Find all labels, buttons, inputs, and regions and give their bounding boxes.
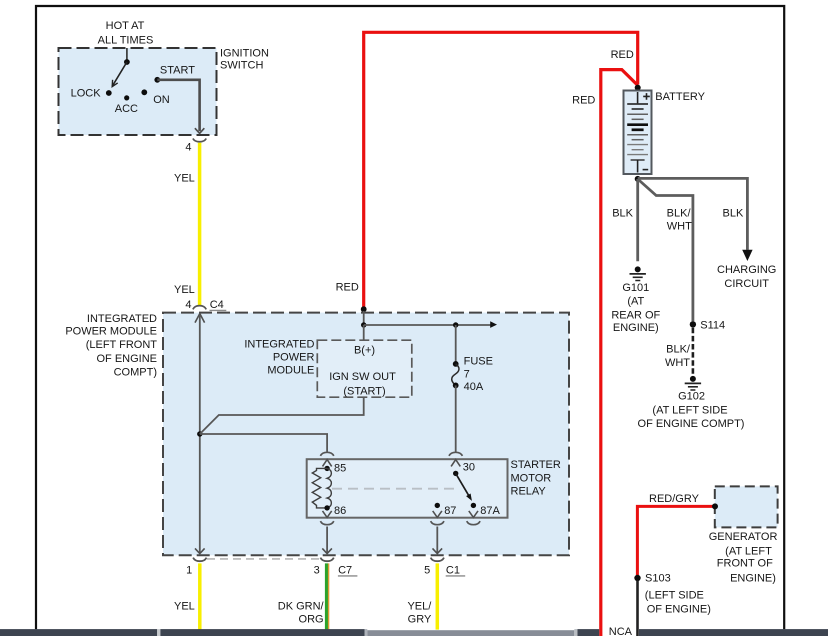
svg-text:7: 7 bbox=[464, 369, 470, 381]
svg-text:4: 4 bbox=[185, 141, 191, 153]
splice S103 bbox=[634, 573, 711, 616]
svg-text:(START): (START) bbox=[343, 386, 385, 398]
svg-text:OF ENGINE): OF ENGINE) bbox=[647, 603, 711, 615]
svg-text:INTEGRATED: INTEGRATED bbox=[87, 313, 157, 325]
wire NCA below S103 bbox=[609, 581, 638, 636]
pin 87A bbox=[467, 503, 501, 525]
label STARTER MOTOR RELAY bbox=[511, 459, 561, 498]
wire IGN SW OUT to junction bbox=[200, 397, 364, 434]
bottom bar bbox=[0, 629, 828, 636]
svg-text:ORG: ORG bbox=[299, 613, 324, 625]
svg-text:INTEGRATED: INTEGRATED bbox=[244, 339, 314, 351]
svg-text:CIRCUIT: CIRCUIT bbox=[724, 278, 769, 290]
svg-text:1: 1 bbox=[186, 565, 192, 577]
junction node fuse branch bbox=[453, 322, 458, 327]
svg-text:RED: RED bbox=[336, 281, 359, 293]
svg-text:(AT: (AT bbox=[627, 295, 644, 307]
svg-text:ALL TIMES: ALL TIMES bbox=[98, 35, 154, 47]
wire YEL/GRY pin 5 bbox=[407, 563, 437, 629]
wire DK GRN/ORG pin 3 bbox=[278, 563, 329, 629]
battery BAT1 bbox=[624, 91, 652, 175]
svg-text:RED: RED bbox=[572, 95, 595, 107]
svg-text:COMPT): COMPT) bbox=[114, 366, 157, 378]
svg-text:S114: S114 bbox=[700, 320, 725, 332]
B(+) IGN SW OUT block bbox=[317, 340, 412, 397]
svg-text:(LEFT FRONT: (LEFT FRONT bbox=[86, 339, 158, 351]
generator box bbox=[715, 486, 778, 527]
svg-text:87A: 87A bbox=[480, 505, 500, 517]
svg-text:NCA: NCA bbox=[609, 626, 633, 636]
svg-text:87: 87 bbox=[444, 505, 456, 517]
svg-text:STARTER: STARTER bbox=[511, 459, 561, 471]
wire BLK/WHT to S114 bbox=[638, 179, 693, 321]
wire feed stub into switch bbox=[126, 48, 128, 62]
label INTEGRATED POWER MODULE (inner) bbox=[244, 339, 314, 377]
fuse F7 40A bbox=[452, 325, 493, 452]
splice S114 bbox=[690, 320, 725, 332]
svg-text:BATTERY: BATTERY bbox=[655, 91, 705, 103]
pin 86 bbox=[324, 505, 346, 517]
svg-text:5: 5 bbox=[424, 565, 430, 577]
node battery negative bbox=[635, 176, 641, 182]
connector C4 pin 4 bbox=[185, 299, 226, 311]
integrated power module U1 box bbox=[163, 313, 569, 556]
svg-text:BLK/: BLK/ bbox=[667, 207, 692, 219]
svg-text:YEL: YEL bbox=[174, 601, 195, 613]
svg-text:3: 3 bbox=[314, 565, 320, 577]
node B+ bus bbox=[361, 322, 366, 327]
svg-text:MODULE: MODULE bbox=[267, 365, 314, 377]
ground G101 bbox=[611, 266, 660, 333]
wire START output bbox=[157, 80, 199, 131]
starter motor relay K1 box bbox=[307, 459, 508, 518]
svg-text:POWER MODULE: POWER MODULE bbox=[65, 326, 157, 338]
wire RED from module to battery positive bbox=[336, 32, 638, 309]
svg-text:(LEFT SIDE: (LEFT SIDE bbox=[645, 589, 704, 601]
pin 86 exit arrow and connector bbox=[320, 511, 333, 554]
svg-text:DK GRN/: DK GRN/ bbox=[278, 601, 325, 613]
svg-text:CHARGING: CHARGING bbox=[717, 264, 776, 276]
label IGNITION SWITCH bbox=[220, 48, 269, 72]
wire junction to relay coil pin 85 bbox=[200, 434, 327, 452]
node at generator bbox=[712, 503, 718, 509]
node START bbox=[154, 64, 195, 82]
svg-text:ENGINE): ENGINE) bbox=[613, 322, 659, 334]
svg-text:RED/GRY: RED/GRY bbox=[649, 493, 700, 505]
svg-text:85: 85 bbox=[334, 462, 346, 474]
svg-text:(AT LEFT: (AT LEFT bbox=[725, 545, 772, 557]
connector pin 4 at ignition switch bbox=[185, 139, 206, 154]
svg-text:C7: C7 bbox=[338, 565, 352, 577]
relay coil winding bbox=[327, 468, 331, 508]
svg-text:WHT: WHT bbox=[665, 357, 690, 369]
svg-text:G102: G102 bbox=[678, 391, 705, 403]
svg-text:WHT: WHT bbox=[667, 221, 692, 233]
node RED at module top edge bbox=[361, 306, 367, 312]
relay coil resistor bbox=[312, 468, 327, 508]
svg-text:YEL: YEL bbox=[174, 284, 195, 296]
svg-text:B(+): B(+) bbox=[354, 344, 375, 356]
svg-text:G101: G101 bbox=[622, 282, 649, 294]
connector at relay pin 30 bbox=[449, 452, 462, 466]
wire YEL pin 1 bbox=[174, 563, 200, 629]
svg-text:POWER: POWER bbox=[273, 352, 315, 364]
svg-text:REAR OF: REAR OF bbox=[611, 309, 660, 321]
label HOT AT ALL TIMES bbox=[98, 20, 154, 47]
svg-text:OF ENGINE COMPT): OF ENGINE COMPT) bbox=[638, 418, 745, 430]
connector strip C7 dashed bbox=[207, 558, 320, 560]
label GENERATOR (AT LEFT FRONT OF ENGINE) bbox=[709, 531, 778, 584]
connector at relay pin 85 bbox=[320, 452, 333, 466]
connector pin 1 below module bbox=[186, 558, 206, 577]
label CHARGING CIRCUIT bbox=[717, 264, 776, 290]
svg-text:BLK: BLK bbox=[612, 207, 633, 219]
node battery positive bbox=[635, 85, 641, 91]
wire RED battery feed bbox=[572, 70, 638, 636]
svg-text:START: START bbox=[160, 64, 195, 76]
svg-text:LOCK: LOCK bbox=[71, 88, 102, 100]
wire B+ bus with arrow bbox=[364, 321, 497, 328]
svg-text:86: 86 bbox=[334, 505, 346, 517]
svg-text:30: 30 bbox=[463, 461, 475, 473]
svg-text:BLK: BLK bbox=[723, 207, 744, 219]
connector C1 pin 5 below module bbox=[424, 558, 465, 577]
wire YEL ignition to C4 bbox=[174, 143, 200, 306]
svg-text:ENGINE): ENGINE) bbox=[730, 572, 776, 584]
svg-text:C4: C4 bbox=[210, 299, 224, 311]
svg-text:YEL/: YEL/ bbox=[407, 601, 432, 613]
svg-text:40A: 40A bbox=[464, 381, 484, 393]
switch pivot node bbox=[124, 59, 130, 65]
relay switch blade bbox=[456, 473, 472, 501]
ground G102 bbox=[638, 376, 745, 430]
svg-text:GENERATOR: GENERATOR bbox=[709, 531, 778, 543]
svg-text:IGN SW OUT: IGN SW OUT bbox=[329, 371, 396, 383]
pin 30 bbox=[453, 461, 475, 476]
svg-text:RELAY: RELAY bbox=[511, 486, 547, 498]
svg-text:S103: S103 bbox=[645, 573, 671, 585]
svg-text:FRONT OF: FRONT OF bbox=[717, 557, 773, 569]
svg-text:GRY: GRY bbox=[408, 613, 432, 625]
switch lever arm bbox=[112, 62, 127, 87]
relay linkage dashed bbox=[332, 488, 458, 490]
svg-text:(AT LEFT SIDE: (AT LEFT SIDE bbox=[652, 405, 727, 417]
ignition switch SW1 box bbox=[59, 48, 217, 135]
wire BLK/WHT S114 to G102 bbox=[665, 328, 693, 375]
svg-text:IGNITION: IGNITION bbox=[220, 48, 269, 60]
wire BLK to charging circuit bbox=[638, 178, 753, 261]
label INTEGRATED POWER MODULE (LEFT FRONT OF ENGINE COMPT) bbox=[65, 313, 157, 378]
wire into B(+) block bbox=[363, 325, 365, 340]
svg-text:BLK/: BLK/ bbox=[666, 344, 691, 356]
svg-text:RED: RED bbox=[611, 49, 634, 61]
svg-text:YEL: YEL bbox=[174, 173, 195, 185]
svg-text:ON: ON bbox=[153, 94, 170, 106]
wire BLK to G101 bbox=[612, 179, 637, 261]
wire inside module from C4 to pin 1 bbox=[195, 314, 205, 554]
svg-text:C1: C1 bbox=[446, 565, 460, 577]
svg-text:OF ENGINE: OF ENGINE bbox=[96, 353, 157, 365]
connector C7 pin 3 below module bbox=[314, 558, 358, 577]
pin 85 bbox=[324, 462, 346, 474]
wire RED/GRY generator to S103 bbox=[637, 493, 715, 575]
node ON bbox=[141, 89, 169, 106]
node ACC bbox=[115, 95, 138, 115]
svg-text:4: 4 bbox=[185, 299, 191, 311]
svg-text:HOT AT: HOT AT bbox=[106, 20, 145, 32]
svg-text:MOTOR: MOTOR bbox=[511, 472, 552, 484]
svg-text:FUSE: FUSE bbox=[464, 355, 493, 367]
svg-text:SWITCH: SWITCH bbox=[220, 60, 263, 72]
wire link to B+ bus bbox=[363, 311, 365, 325]
node LOCK bbox=[71, 88, 112, 100]
svg-text:ACC: ACC bbox=[115, 103, 138, 115]
junction node inside module bbox=[197, 431, 202, 436]
pin 87 bbox=[431, 503, 457, 554]
